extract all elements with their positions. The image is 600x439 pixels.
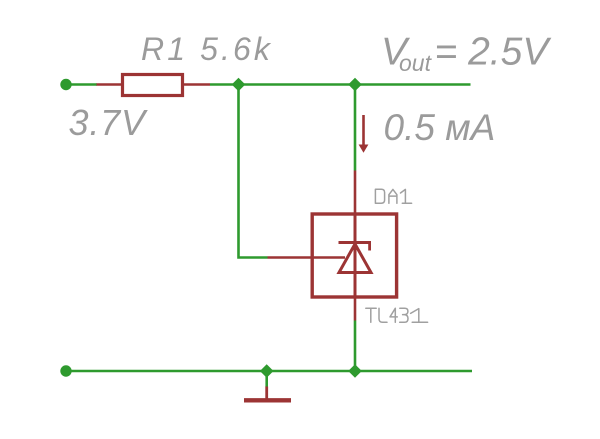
ground [244, 387, 291, 401]
svg-text:0.5 мА: 0.5 мА [384, 107, 496, 148]
svg-text:3.7V: 3.7V [69, 102, 148, 143]
junction B at Vout [348, 78, 362, 92]
wire ground stub [265, 371, 268, 387]
junction D at anode [348, 364, 362, 378]
svg-text:R1 5.6k: R1 5.6k [141, 31, 273, 67]
wire cathode branch down from Vout [354, 85, 357, 171]
wire left branch down to reference pin [239, 85, 268, 258]
shunt regulator DA1 zener cathode hook [368, 243, 371, 251]
shunt regulator DA1 pin R (reference pin, left) [268, 256, 313, 259]
current arrow 0.5 mA [359, 115, 369, 153]
shunt regulator DA1 pin A (anode pin, bottom) [354, 297, 357, 321]
shunt regulator DA1 zener triangle [339, 244, 371, 273]
node left endpoint dot 3.7V [60, 79, 71, 90]
resistor R1 right pin [183, 83, 211, 86]
resistor R1 body [123, 75, 183, 96]
node bottom-left endpoint dot [60, 365, 71, 376]
resistor R1 left pin [97, 83, 123, 86]
shunt regulator DA1 internal reference line [312, 256, 345, 259]
wire anode to bottom rail [354, 321, 357, 372]
wire top rail left segment [66, 83, 97, 86]
shunt regulator DA1 zener cathode bar [339, 241, 372, 244]
label DA1 [375, 189, 411, 203]
shunt regulator DA1 pin K (cathode pin, top) [354, 171, 357, 215]
shunt regulator DA1 TL431 body box [312, 214, 396, 297]
junction C at ground tap [260, 364, 274, 378]
shunt regulator DA1 internal cathode-anode line [354, 214, 357, 297]
junction A at resistor output [232, 78, 246, 92]
wire top rail right segment [210, 83, 471, 86]
wire bottom rail [66, 370, 472, 373]
label TL431 (value of DA1) [366, 308, 428, 322]
svg-text:Vout= 2.5V: Vout= 2.5V [381, 31, 552, 77]
